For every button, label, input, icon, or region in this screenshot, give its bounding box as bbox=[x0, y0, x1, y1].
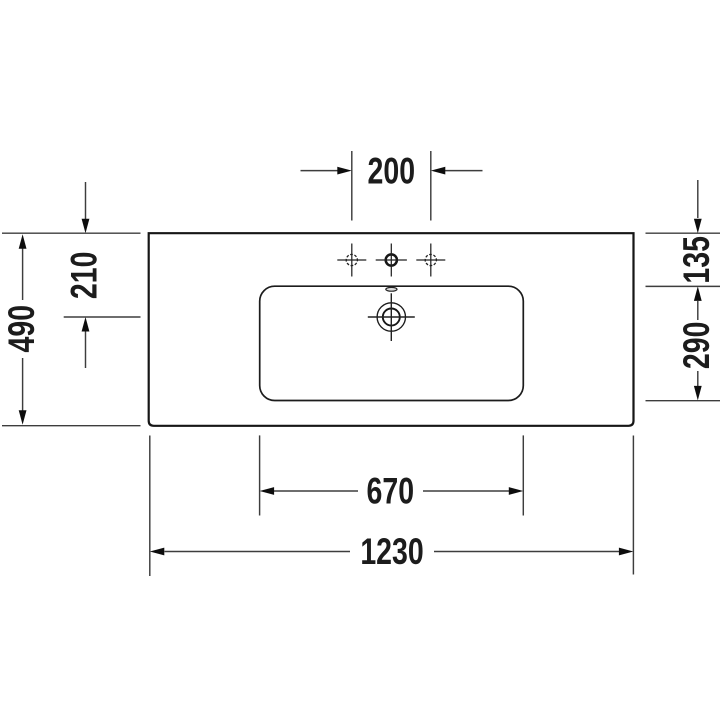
basin inner bowl bbox=[260, 286, 524, 400]
svg-text:1230: 1230 bbox=[360, 531, 423, 572]
dimension 210 (left inner) bbox=[64, 182, 141, 368]
svg-text:290: 290 bbox=[675, 322, 716, 370]
faucet hole right (dashed) bbox=[416, 244, 445, 277]
svg-text:490: 490 bbox=[0, 305, 41, 353]
dimension 490 (far left) bbox=[2, 233, 141, 426]
basin outer outline bbox=[149, 233, 634, 426]
dimensions 135 / 290 (right) bbox=[646, 180, 720, 401]
svg-text:135: 135 bbox=[675, 236, 716, 284]
faucet hole left (dashed) bbox=[337, 244, 366, 277]
svg-text:210: 210 bbox=[63, 252, 104, 300]
overflow slot bbox=[386, 287, 397, 291]
drain bbox=[368, 293, 415, 341]
faucet hole center bbox=[376, 244, 407, 277]
svg-text:200: 200 bbox=[368, 150, 416, 191]
dimension 200 (top) bbox=[301, 151, 483, 221]
dimension 670 bbox=[260, 435, 524, 515]
dimension 1230 bbox=[150, 436, 634, 577]
svg-text:670: 670 bbox=[367, 470, 415, 511]
